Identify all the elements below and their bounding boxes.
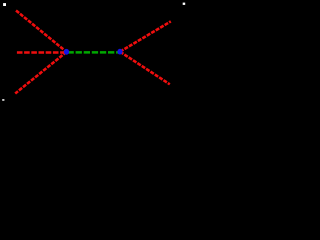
wire: incoming fermion line upper-left (red dashed) [16,11,67,52]
node marker: white dot top-left [3,3,6,6]
wire: propagator between vertices (green dashed) [68,51,120,54]
wire: outgoing fermion line lower-left (red dashed) [15,52,66,94]
wire: outgoing fermion line lower-right (red dashed) [120,52,170,85]
Feynman-style diagram: e+e- annihilation, black background [0,0,188,106]
node V1: left interaction vertex (blue dot) [64,49,69,55]
node V2: right interaction vertex (blue dot) [117,49,122,55]
wire: outgoing fermion line upper-right (red dashed) [120,21,171,51]
node marker: white dot bottom-left [2,99,4,101]
wire: incoming fermion line middle-left horizontal (red dashed) [17,51,67,53]
node marker: white dot top-right [183,3,186,5]
